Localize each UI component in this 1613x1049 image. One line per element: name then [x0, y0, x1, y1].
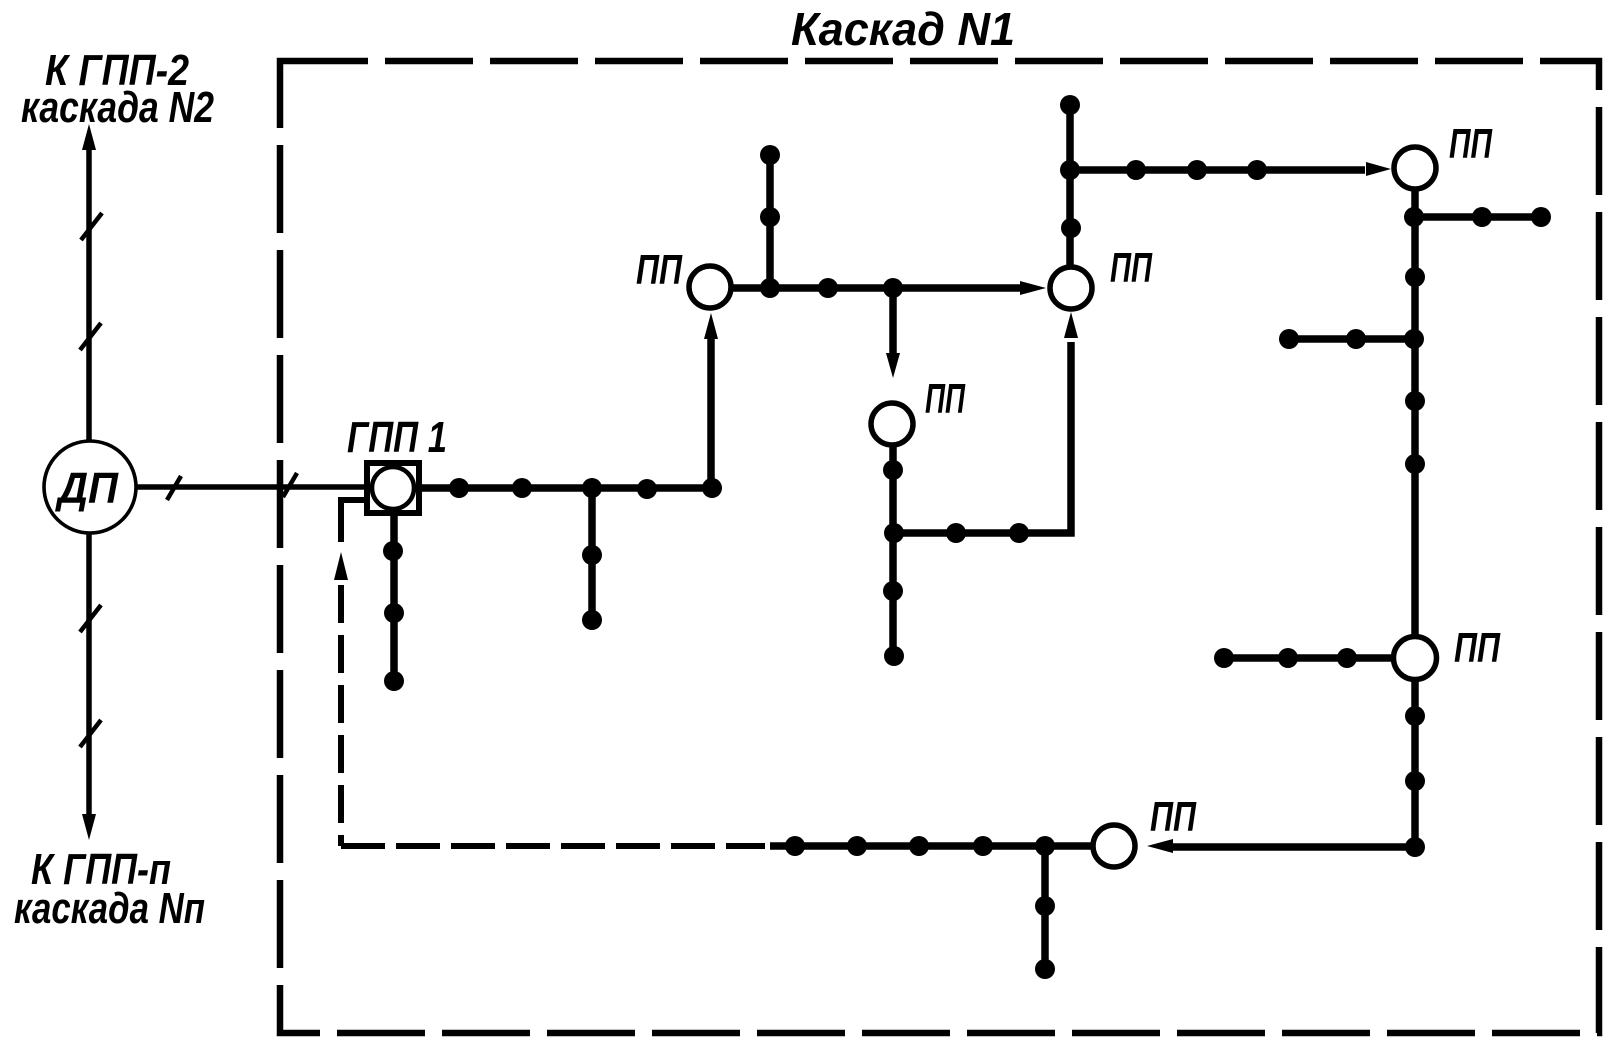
- svg-text:ПП: ПП: [1110, 244, 1153, 291]
- svg-text:Каскад N1: Каскад N1: [791, 3, 1015, 55]
- svg-text:ГПП 1: ГПП 1: [347, 413, 447, 462]
- svg-text:ПП: ПП: [636, 246, 683, 293]
- svg-text:ПП: ПП: [1449, 120, 1493, 167]
- svg-text:ПП: ПП: [925, 375, 966, 422]
- svg-text:каскада Nп: каскада Nп: [14, 884, 205, 933]
- svg-text:ДП: ДП: [54, 464, 119, 513]
- svg-text:ПП: ПП: [1150, 793, 1197, 840]
- svg-text:ПП: ПП: [1454, 624, 1501, 671]
- svg-text:каскада N2: каскада N2: [21, 83, 214, 132]
